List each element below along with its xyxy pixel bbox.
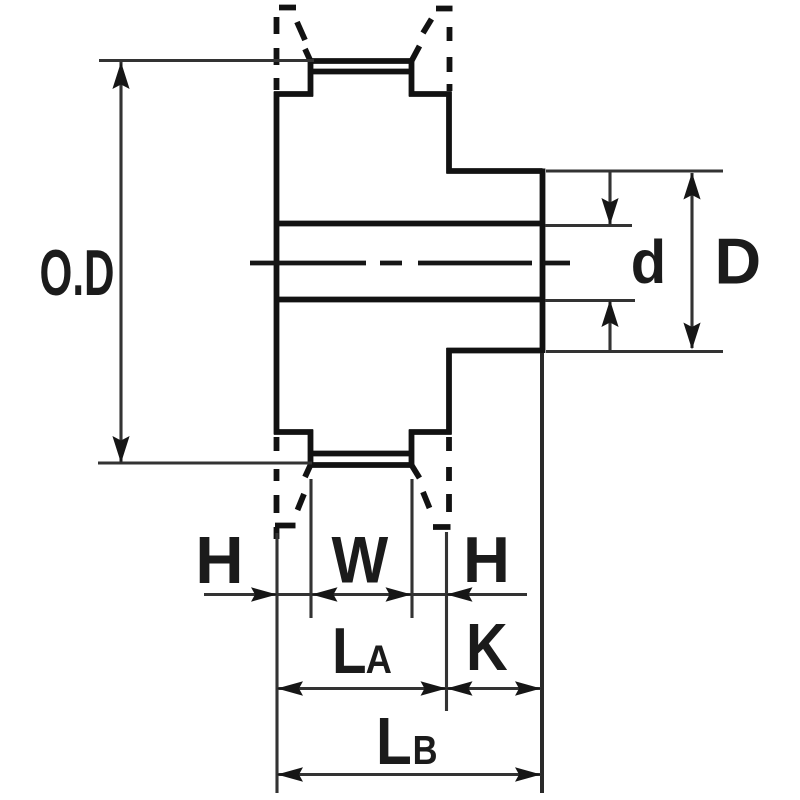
W right arrow pointing right bbox=[386, 587, 412, 601]
centerline segment 2 bbox=[418, 261, 532, 266]
d arrow down to bore top bbox=[601, 198, 618, 225]
bottom-left flange bottom dash bbox=[275, 523, 296, 529]
top left flange inner edge solid part bbox=[305, 49, 311, 61]
O.D arrow down bbox=[112, 436, 129, 463]
bottom left flange inner edge solid part bbox=[305, 465, 311, 477]
hub right face bbox=[540, 169, 546, 354]
d dimension line upper bbox=[608, 172, 611, 224]
top step right bbox=[409, 91, 452, 97]
svg-text:K: K bbox=[466, 611, 508, 685]
pulley right face lower (solid section) bbox=[446, 348, 452, 435]
bore top line bbox=[277, 221, 543, 227]
top-left flange outer face dashes bbox=[274, 17, 280, 34]
hub bottom line bbox=[447, 348, 543, 354]
top right tooth edge bbox=[409, 59, 415, 97]
centerline segment 1 bbox=[250, 261, 366, 266]
H left arrow pointing right bbox=[251, 587, 277, 601]
svg-text:B: B bbox=[413, 727, 438, 773]
D dimension line bbox=[690, 173, 693, 348]
LA K dimension line bbox=[277, 687, 541, 690]
extension line right tooth edge bbox=[410, 479, 413, 618]
top-right flange outer face dashes bbox=[447, 27, 453, 41]
H W H dimension line bbox=[204, 593, 527, 596]
bottom-left flange inner edge dash bbox=[298, 494, 305, 510]
pulley right face upper (solid section) bbox=[446, 92, 452, 174]
bore top extension line bbox=[545, 224, 632, 227]
O.D top extension line bbox=[99, 59, 314, 62]
d dimension line lower bbox=[608, 301, 611, 352]
bore bottom extension line bbox=[545, 299, 635, 302]
svg-text:O.D: O.D bbox=[40, 236, 115, 309]
LA right arrow bbox=[421, 681, 447, 695]
bottom step right bbox=[409, 429, 452, 435]
top tooth land outer line bbox=[308, 58, 414, 64]
O.D arrow up bbox=[112, 62, 129, 89]
W left arrow pointing left bbox=[312, 587, 338, 601]
centerline tail across hub face bbox=[543, 261, 570, 266]
centerline dash bbox=[380, 261, 402, 266]
top-right flange inner edge dash bbox=[423, 19, 432, 33]
top tooth land inner line bbox=[308, 69, 414, 75]
LB dimension line bbox=[277, 773, 541, 776]
hub top line bbox=[447, 168, 543, 174]
extension line left face bbox=[275, 533, 278, 793]
O.D bottom extension line bbox=[98, 461, 312, 464]
H right arrow pointing left bbox=[447, 587, 473, 601]
svg-text:H: H bbox=[195, 523, 243, 598]
bottom-left flange corner dash bbox=[274, 527, 280, 539]
bottom-left flange outer face dashes bbox=[274, 437, 280, 451]
bottom-right flange outer face dashes bbox=[446, 437, 452, 451]
bottom tooth land outer line bbox=[308, 462, 414, 468]
K left arrow bbox=[447, 681, 473, 695]
bottom right tooth edge bbox=[409, 430, 415, 468]
hub bottom extension line bbox=[546, 350, 723, 353]
bottom left tooth edge bbox=[308, 430, 314, 468]
extension line hub face bbox=[540, 353, 544, 793]
top step left bbox=[274, 91, 313, 97]
top left tooth edge bbox=[308, 59, 314, 97]
O.D dimension line bbox=[119, 62, 122, 464]
svg-text:L: L bbox=[376, 705, 412, 779]
svg-text:D: D bbox=[715, 226, 762, 298]
D arrow down bbox=[683, 323, 700, 350]
top-right flange top dash bbox=[436, 6, 453, 12]
bottom-right flange inner edge dash bbox=[423, 492, 430, 508]
svg-text:H: H bbox=[463, 523, 510, 596]
hub top extension line bbox=[546, 169, 723, 172]
bottom step left bbox=[274, 429, 313, 435]
LB left arrow bbox=[277, 767, 303, 781]
top-left flange top dash bbox=[279, 5, 296, 11]
pulley left face (solid section) bbox=[274, 92, 280, 435]
d arrow up to bore bottom bbox=[601, 300, 618, 327]
LA left arrow bbox=[277, 681, 303, 695]
extension line right flange face bbox=[445, 532, 448, 711]
extension line left tooth edge bbox=[309, 479, 312, 618]
svg-text:d: d bbox=[631, 228, 666, 296]
top right flange inner edge solid part bbox=[412, 46, 420, 61]
bottom right flange inner edge solid part bbox=[412, 465, 420, 478]
bottom tooth land inner line bbox=[308, 451, 414, 457]
bore bottom line bbox=[277, 297, 543, 303]
K right arrow bbox=[515, 681, 541, 695]
svg-text:L: L bbox=[332, 615, 367, 687]
svg-text:A: A bbox=[366, 638, 392, 682]
svg-text:W: W bbox=[332, 523, 389, 597]
top-left flange inner edge dash bbox=[297, 22, 305, 40]
D arrow up bbox=[683, 173, 700, 200]
LB right arrow bbox=[515, 767, 541, 781]
bottom-right flange bottom dash bbox=[433, 524, 451, 530]
